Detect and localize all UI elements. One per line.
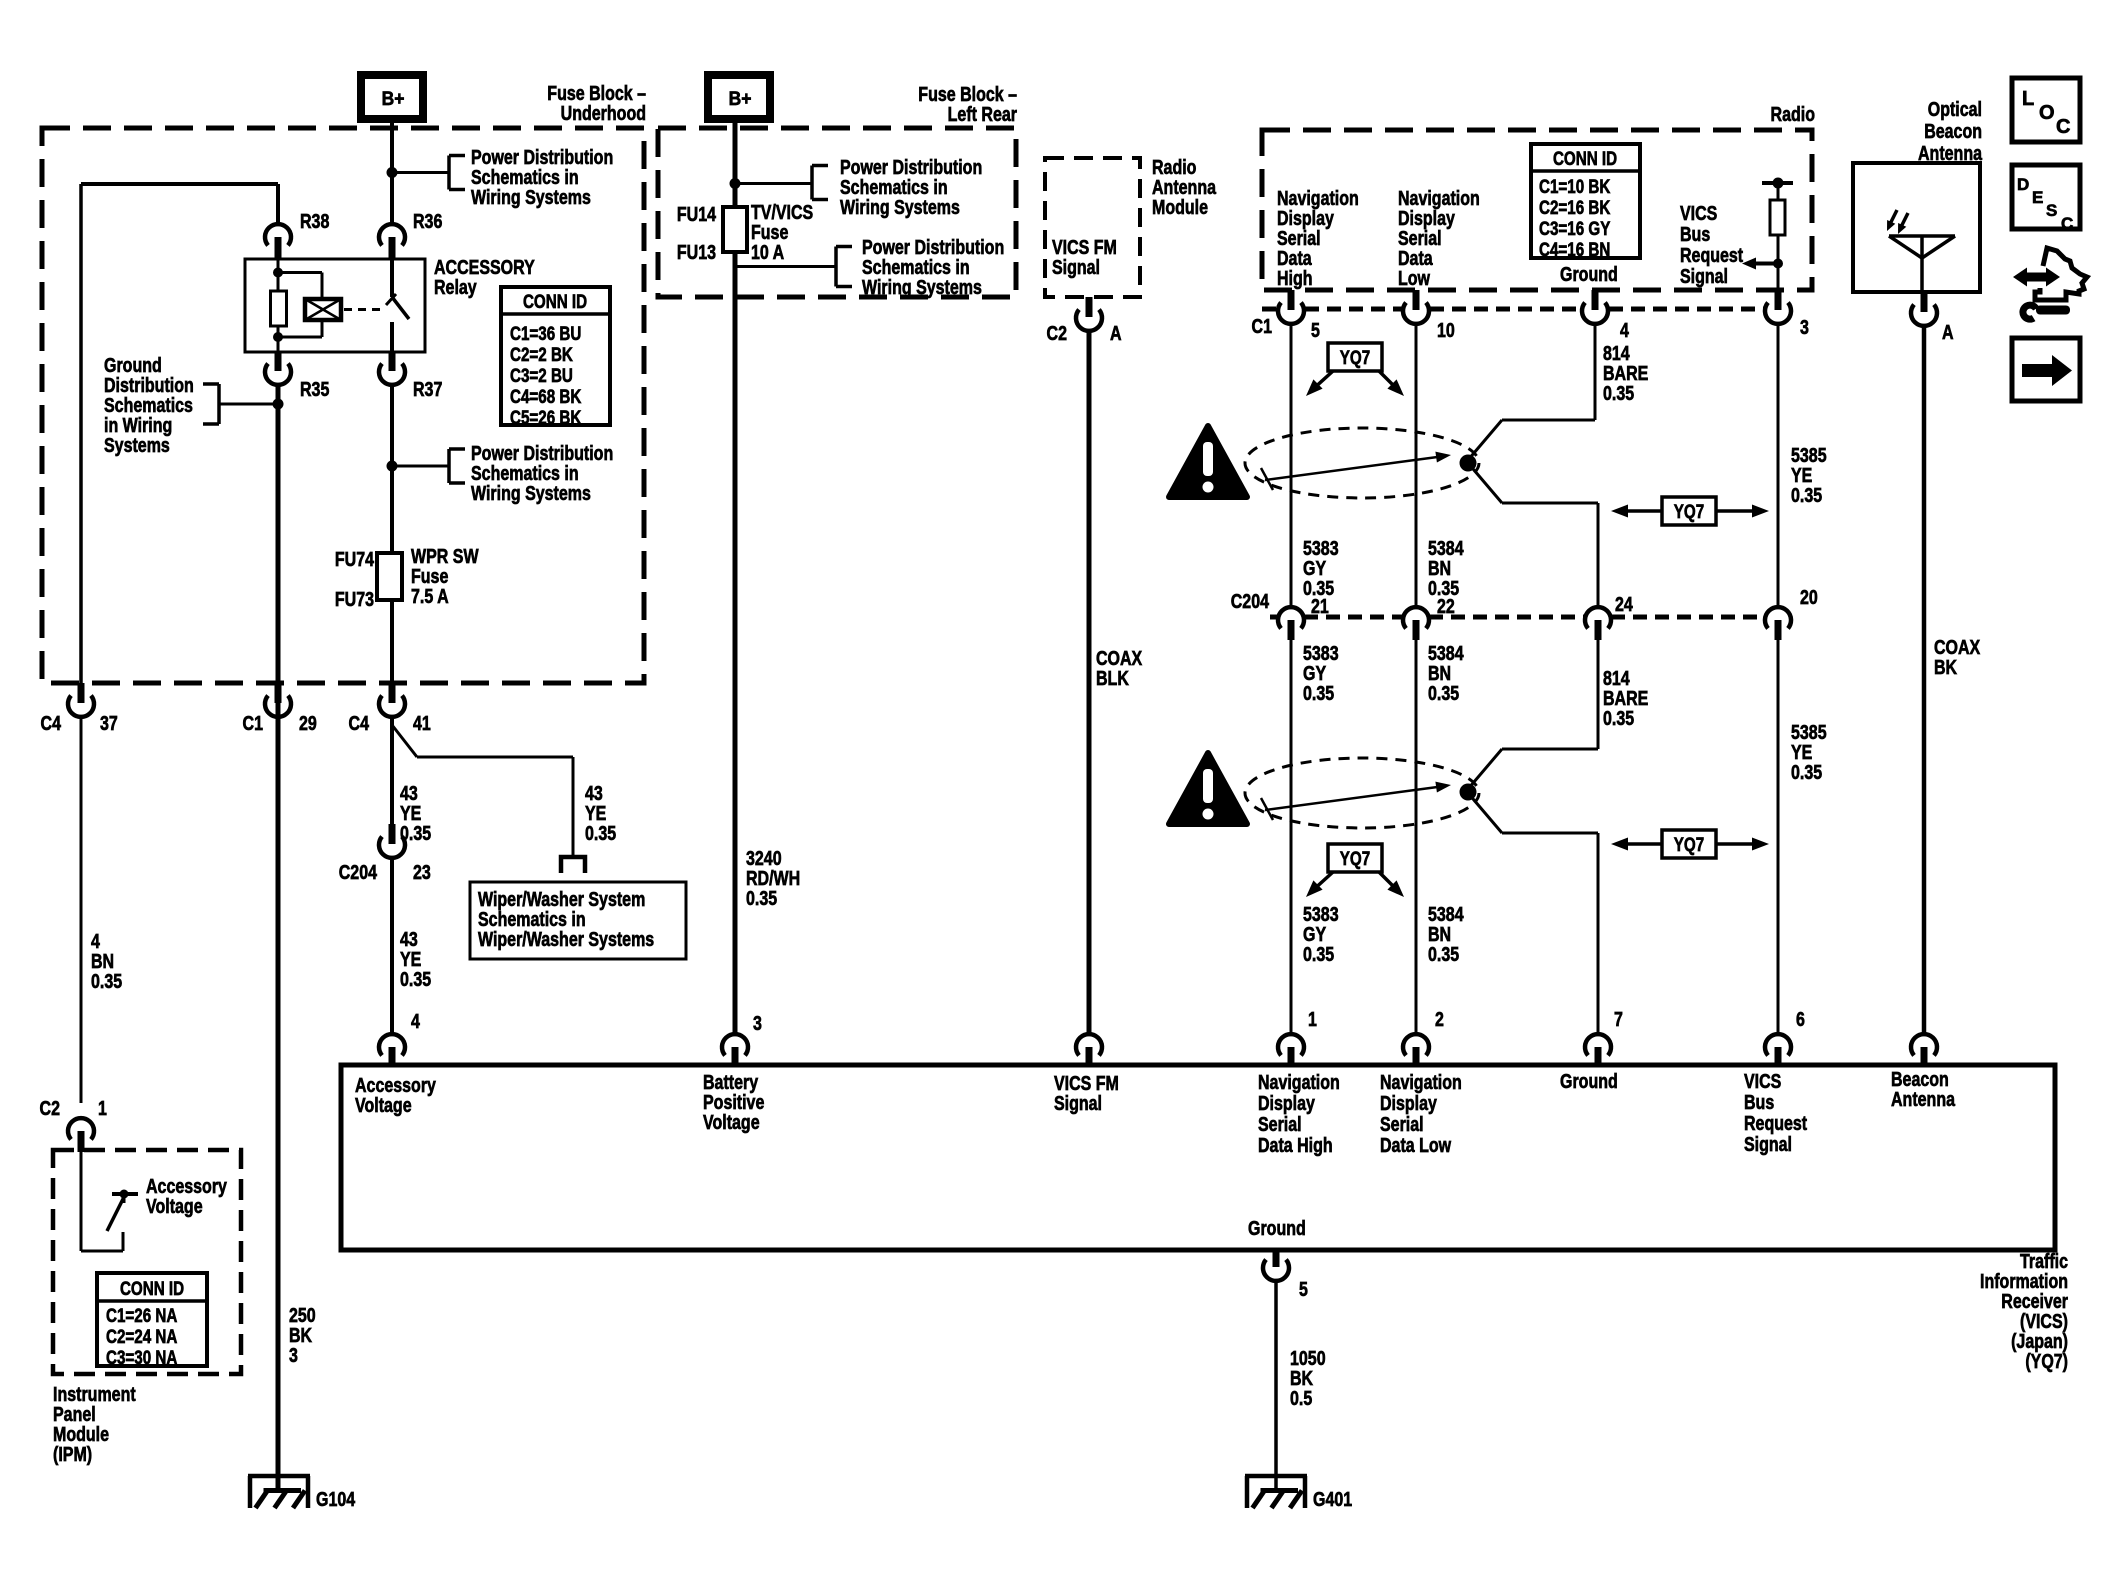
relay actuation dashed link bbox=[344, 308, 383, 311]
module pin 7 connector bbox=[1585, 1008, 1623, 1065]
label Radio bbox=[1771, 103, 1815, 125]
svg-text:R38: R38 bbox=[300, 210, 329, 232]
off-page bracket power distribution (top) bbox=[449, 156, 465, 190]
svg-text:YQ7: YQ7 bbox=[1340, 346, 1370, 368]
relay coil resistor element bbox=[271, 291, 287, 326]
svg-text:10: 10 bbox=[1437, 319, 1455, 341]
svg-text:Ground: Ground bbox=[1248, 1217, 1306, 1239]
IPM accessory voltage switch bbox=[107, 1190, 138, 1232]
svg-text:Radio: Radio bbox=[1771, 103, 1815, 125]
svg-text:FU74: FU74 bbox=[335, 548, 374, 570]
module pin 1 connector bbox=[1278, 1008, 1317, 1065]
svg-text:S: S bbox=[2046, 201, 2057, 220]
svg-text:6: 6 bbox=[1796, 1008, 1805, 1030]
shield drain line (lower) bbox=[1261, 782, 1451, 820]
label 250 BK 3 bbox=[289, 1304, 316, 1366]
wire coax beacon antenna bbox=[1922, 326, 1927, 1034]
label Power Distribution Schematics in Wiring Systems (left rear bottom) bbox=[862, 236, 1004, 298]
off-page bracket power distribution (left rear top) bbox=[812, 166, 828, 200]
fuse FU74/FU73 WPR SW 7.5A bbox=[335, 545, 479, 610]
label Radio Antenna Module bbox=[1152, 156, 1217, 218]
svg-text:E: E bbox=[2032, 188, 2043, 207]
svg-text:BeaconAntenna: BeaconAntenna bbox=[1891, 1068, 1956, 1110]
label Optical Beacon Antenna bbox=[1918, 98, 1983, 164]
svg-text:C1=36 BUC2=2 BKC3=2 BUC4=68 BK: C1=36 BUC2=2 BKC3=2 BUC4=68 BKC5=26 BK bbox=[510, 322, 582, 428]
svg-text:Ground: Ground bbox=[1560, 1070, 1618, 1092]
svg-text:R36: R36 bbox=[413, 210, 442, 232]
wire 5385 YE radio pin3 to C204-20 bbox=[1777, 324, 1780, 607]
module pin 3 connector bbox=[722, 1012, 762, 1065]
wire 814 BARE upper jog bbox=[1468, 324, 1598, 607]
svg-text:C1=10 BKC2=16 BKC3=16 GYC4=16: C1=10 BKC2=16 BKC3=16 GYC4=16 BN bbox=[1539, 175, 1611, 260]
off-page bracket power distribution (left rear bottom) bbox=[836, 247, 852, 287]
label 43 YE 0.35 (branch) bbox=[585, 782, 616, 844]
wire 5384 BN radio pin10 to C204-22 bbox=[1415, 324, 1418, 607]
label Fuse Block - Underhood bbox=[547, 82, 646, 124]
svg-text:2: 2 bbox=[1435, 1008, 1444, 1030]
radio connector pin 3 bbox=[1765, 290, 1809, 338]
label COAX BLK bbox=[1096, 647, 1142, 689]
junction dot on B+ feed bbox=[387, 167, 398, 178]
IPM CONN ID table bbox=[97, 1273, 207, 1368]
wire 4 BN C4-37 to IPM bbox=[80, 717, 83, 1103]
label navigation display serial data low (radio) bbox=[1398, 187, 1480, 289]
label 4 BN 0.35 bbox=[91, 930, 122, 992]
svg-text:FU73: FU73 bbox=[335, 588, 374, 610]
label Ground (radio pin) bbox=[1560, 263, 1618, 285]
radio termination bar bbox=[1762, 178, 1793, 201]
wire terminal into wiper/washer reference bbox=[561, 857, 585, 873]
IPM internal wire bbox=[81, 1152, 123, 1251]
fuse FU14/FU13 TV-VICS 10A bbox=[677, 201, 813, 263]
label Instrument Panel Module (IPM) bbox=[53, 1383, 136, 1465]
module pin 5 connector bbox=[1263, 1250, 1308, 1300]
svg-text:5: 5 bbox=[1299, 1278, 1308, 1300]
label Navigation Display Serial Data High (module pin) bbox=[1258, 1071, 1340, 1156]
label 5383 GY 0.35 (above C204) bbox=[1303, 537, 1339, 599]
shield junction dot (upper) bbox=[1460, 455, 1477, 472]
wire C204-23 to module pin 4 bbox=[390, 858, 394, 1034]
label 5384 BN 0.35 (below C204) bbox=[1428, 642, 1464, 704]
label navigation display serial data high (radio) bbox=[1277, 187, 1359, 289]
off-page bracket power distribution (mid) bbox=[449, 449, 465, 483]
radio VICS bus request wire with arrow bbox=[1742, 235, 1783, 290]
module pin VICS FM connector bbox=[1076, 1034, 1102, 1065]
svg-text:A: A bbox=[1942, 321, 1954, 343]
wire R35 to ground run G104 bbox=[276, 385, 281, 683]
connector C204 pin 24 bbox=[1585, 593, 1633, 640]
svg-text:B+: B+ bbox=[382, 87, 405, 109]
svg-text:4: 4 bbox=[1620, 319, 1629, 341]
radio connector pin 5 bbox=[1278, 290, 1320, 341]
label 5383 GY 0.35 (below C204) bbox=[1303, 642, 1339, 704]
instrument panel module dashed box bbox=[53, 1150, 241, 1374]
connector C1 pin 29 bbox=[243, 683, 317, 734]
connector R38 bbox=[265, 210, 329, 259]
wire 5383 GY radio pin5 to C204-21 bbox=[1290, 324, 1293, 607]
label Beacon Antenna (module pin) bbox=[1891, 1068, 1956, 1110]
fuse block left rear dashed enclosure bbox=[658, 128, 1016, 297]
svg-text:G401: G401 bbox=[1313, 1488, 1352, 1510]
svg-text:23: 23 bbox=[413, 861, 431, 883]
fuse block underhood dashed enclosure bbox=[42, 128, 644, 683]
svg-text:Fuse Block –Underhood: Fuse Block –Underhood bbox=[547, 82, 646, 124]
relay switch bbox=[386, 259, 409, 352]
warning triangle (upper) bbox=[1169, 426, 1247, 497]
wire 5383 GY C204-21 to module pin1 bbox=[1290, 640, 1293, 1034]
connector R37 bbox=[379, 352, 442, 400]
label 5384 BN 0.35 (above C204) bbox=[1428, 537, 1464, 599]
svg-text:C1: C1 bbox=[1252, 315, 1272, 337]
icon forward arrow box bbox=[2012, 338, 2080, 401]
label VICS Bus Request Signal (module pin) bbox=[1744, 1070, 1807, 1155]
label VICS Bus Request Signal (radio) bbox=[1680, 202, 1743, 287]
connector C2 pin A bbox=[1047, 297, 1122, 344]
traffic information receiver module box bbox=[341, 1065, 2055, 1250]
svg-text:CONN ID: CONN ID bbox=[120, 1277, 184, 1299]
icon wrench bbox=[2023, 305, 2070, 319]
svg-text:C1: C1 bbox=[243, 712, 263, 734]
connector C204 pin 23 bbox=[339, 824, 431, 883]
label Accessory Voltage (module pin) bbox=[355, 1074, 436, 1116]
wire ground distribution branch bbox=[219, 399, 284, 410]
YQ7 double-arrow callout (lower) bbox=[1611, 830, 1769, 858]
radio connector pin 4 bbox=[1582, 290, 1629, 341]
wire 5385 YE C204-20 to module pin6 bbox=[1777, 640, 1780, 1034]
svg-text:5: 5 bbox=[1311, 319, 1320, 341]
label 1050 BK 0.5 bbox=[1290, 1347, 1326, 1409]
svg-text:C204: C204 bbox=[339, 861, 377, 883]
icon component outline bbox=[2035, 248, 2087, 300]
relay coil X-box element bbox=[305, 299, 341, 320]
label Power Distribution Schematics in Wiring Systems (mid) bbox=[471, 442, 613, 504]
wire 250 BK to G104 bbox=[276, 683, 281, 1491]
ground G401 bbox=[1245, 1476, 1352, 1510]
label VICS FM Signal (module pin) bbox=[1054, 1072, 1119, 1114]
label Traffic Information Receiver (VICS)(Japan)(YQ7) bbox=[1980, 1250, 2068, 1372]
radio dashed box bbox=[1262, 130, 1812, 290]
connector R36 bbox=[379, 210, 442, 259]
svg-text:FU13: FU13 bbox=[677, 241, 716, 263]
svg-text:3: 3 bbox=[1800, 316, 1809, 338]
ground G104 bbox=[248, 1476, 355, 1510]
junction dot power distribution (mid) bbox=[387, 461, 398, 472]
svg-text:FU14: FU14 bbox=[677, 203, 716, 225]
beacon optical rays bbox=[1887, 210, 1908, 234]
label COAX BK bbox=[1934, 636, 1980, 678]
junction dot left rear feed bbox=[730, 178, 741, 189]
accessory relay box bbox=[245, 259, 425, 352]
svg-text:C: C bbox=[2056, 116, 2070, 138]
label Navigation Display Serial Data Low (module pin) bbox=[1380, 1071, 1462, 1156]
warning triangle (lower) bbox=[1169, 753, 1247, 824]
module pin 2 connector bbox=[1403, 1008, 1444, 1065]
svg-text:24: 24 bbox=[1615, 593, 1633, 615]
label 5383 GY 0.35 (below YQ7) bbox=[1303, 903, 1339, 965]
connector row C204 dashed line bbox=[1231, 590, 1764, 617]
svg-text:4: 4 bbox=[411, 1010, 420, 1032]
label VICS FM Signal (antenna module) bbox=[1052, 236, 1117, 278]
radio connector pin 10 bbox=[1403, 290, 1455, 341]
svg-text:YQ7: YQ7 bbox=[1674, 500, 1704, 522]
label 814 BARE 0.35 (upper) bbox=[1603, 342, 1648, 404]
beacon antenna symbol bbox=[1889, 236, 1955, 292]
wiper/washer reference box bbox=[470, 882, 686, 959]
wire left feed from C4-37 to relay R38 bbox=[81, 184, 278, 683]
connector C204 pin 20 bbox=[1765, 586, 1818, 640]
svg-text:CONN ID: CONN ID bbox=[1553, 147, 1617, 169]
label Fuse Block - Left Rear bbox=[918, 83, 1017, 125]
radio pull-up resistor bbox=[1770, 200, 1785, 235]
wire 1050 BK ground bbox=[1274, 1281, 1278, 1491]
label Accessory Voltage (IPM) bbox=[146, 1175, 227, 1217]
module pin 6 connector bbox=[1765, 1008, 1805, 1065]
svg-text:3: 3 bbox=[753, 1012, 762, 1034]
label ACCESSORY Relay bbox=[434, 256, 535, 298]
connector C4 pin 41 bbox=[349, 683, 431, 734]
wire branch to power distribution reference (mid) bbox=[392, 465, 449, 468]
svg-text:41: 41 bbox=[413, 712, 431, 734]
svg-text:1: 1 bbox=[98, 1097, 107, 1119]
label 5385 YE 0.35 (lower) bbox=[1791, 721, 1827, 783]
svg-text:BatteryPositiveVoltage: BatteryPositiveVoltage bbox=[703, 1071, 764, 1133]
wire coax VICS FM signal bbox=[1087, 331, 1092, 1034]
wire B+ feed to relay R36 bbox=[390, 119, 394, 224]
module pin 4 connector bbox=[379, 1010, 420, 1065]
wire branch to power distribution reference (left rear bottom) bbox=[735, 265, 836, 268]
power symbol B+ (fuse block underhood feed) bbox=[361, 75, 423, 119]
shield drain line (upper) bbox=[1261, 452, 1451, 490]
radio CONN ID table bbox=[1531, 144, 1640, 260]
svg-text:O: O bbox=[2039, 102, 2055, 124]
shield junction dot (lower) bbox=[1460, 784, 1477, 801]
label Ground Distribution Schematics in Wiring Systems bbox=[104, 354, 194, 456]
svg-text:D: D bbox=[2017, 175, 2029, 194]
power symbol B+ (fuse block left rear feed) bbox=[708, 75, 770, 119]
icon LOC box bbox=[2012, 78, 2080, 142]
svg-text:C4: C4 bbox=[41, 712, 61, 734]
svg-text:29: 29 bbox=[299, 712, 317, 734]
svg-text:L: L bbox=[2022, 88, 2034, 110]
shield dashed ellipse (lower) bbox=[1245, 758, 1479, 828]
label Power Distribution Schematics in Wiring Systems (top) bbox=[471, 146, 613, 208]
connector beacon pin A bbox=[1911, 292, 1954, 343]
svg-text:C2: C2 bbox=[1047, 322, 1067, 344]
svg-text:20: 20 bbox=[1800, 586, 1818, 608]
label Battery Positive Voltage (module pin) bbox=[703, 1071, 764, 1133]
svg-text:37: 37 bbox=[100, 712, 118, 734]
shield dashed ellipse (upper) bbox=[1245, 428, 1479, 498]
connector R35 bbox=[265, 352, 329, 400]
label Power Distribution Schematics in Wiring Systems (left rear top) bbox=[840, 156, 982, 218]
svg-text:A: A bbox=[1110, 322, 1122, 344]
icon DESC box bbox=[2012, 165, 2080, 233]
wire B+ left rear feed bbox=[733, 119, 738, 207]
svg-text:CONN ID: CONN ID bbox=[523, 290, 587, 312]
off-page bracket ground distribution bbox=[203, 384, 219, 424]
label 43 YE 0.35 (lower) bbox=[400, 928, 431, 990]
label 5384 BN 0.35 (below YQ7) bbox=[1428, 903, 1464, 965]
YQ7 double-arrow callout (upper) bbox=[1611, 497, 1769, 525]
YQ7 callout with arrows (lower) bbox=[1306, 844, 1404, 897]
relay coil branch wires bbox=[273, 259, 322, 352]
wire 43 YE branch split bbox=[392, 717, 573, 856]
svg-text:YQ7: YQ7 bbox=[1674, 833, 1704, 855]
svg-text:B+: B+ bbox=[729, 87, 752, 109]
connector C2 pin 1 bbox=[40, 1097, 107, 1152]
svg-text:R37: R37 bbox=[413, 378, 442, 400]
svg-text:R35: R35 bbox=[300, 378, 329, 400]
svg-text:YQ7: YQ7 bbox=[1340, 847, 1370, 869]
svg-text:C2: C2 bbox=[40, 1097, 60, 1119]
wire FU73 to connector C4-41 bbox=[390, 600, 394, 683]
module pin beacon connector bbox=[1911, 1034, 1937, 1065]
label Ground (module bottom pin) bbox=[1248, 1217, 1306, 1239]
wire 5384 BN C204-22 to module pin2 bbox=[1415, 640, 1418, 1034]
wire 814 BARE lower jog bbox=[1468, 640, 1598, 1034]
label 814 BARE 0.35 (lower) bbox=[1603, 667, 1648, 729]
label Ground (module pin) bbox=[1560, 1070, 1618, 1092]
label 3240 RD/WH 0.35 bbox=[746, 847, 800, 909]
svg-text:C: C bbox=[2061, 214, 2073, 233]
connector C4 pin 37 bbox=[41, 683, 118, 734]
svg-text:Ground: Ground bbox=[1560, 263, 1618, 285]
icon repair double arrow bbox=[2013, 268, 2060, 287]
svg-text:G104: G104 bbox=[316, 1488, 355, 1510]
radio antenna module dashed box bbox=[1045, 158, 1140, 297]
wire branch to power distribution reference (left rear top) bbox=[735, 182, 812, 185]
wire R37 down to fuse FU74 bbox=[390, 385, 394, 553]
svg-text:7: 7 bbox=[1614, 1008, 1623, 1030]
YQ7 callout with arrows (upper) bbox=[1306, 343, 1404, 396]
svg-text:C4: C4 bbox=[349, 712, 369, 734]
relay CONN ID table bbox=[501, 287, 610, 428]
svg-text:C1=26 NAC2=24 NAC3=30 NA: C1=26 NAC2=24 NAC3=30 NA bbox=[106, 1304, 177, 1368]
label 43 YE 0.35 (left) bbox=[400, 782, 431, 844]
optical beacon antenna box bbox=[1853, 163, 1980, 292]
svg-text:1: 1 bbox=[1308, 1008, 1317, 1030]
svg-text:C204: C204 bbox=[1231, 590, 1269, 612]
label 5385 YE 0.35 (upper) bbox=[1791, 444, 1827, 506]
wire branch to power distribution reference bbox=[392, 171, 449, 174]
wire FU13 down bbox=[733, 252, 738, 1034]
connector C204 pin 22 bbox=[1403, 595, 1455, 640]
radio connector row C1 dashed line bbox=[1252, 309, 1764, 337]
svg-text:OpticalBeaconAntenna: OpticalBeaconAntenna bbox=[1918, 98, 1983, 164]
connector C204 pin 21 bbox=[1278, 595, 1329, 640]
